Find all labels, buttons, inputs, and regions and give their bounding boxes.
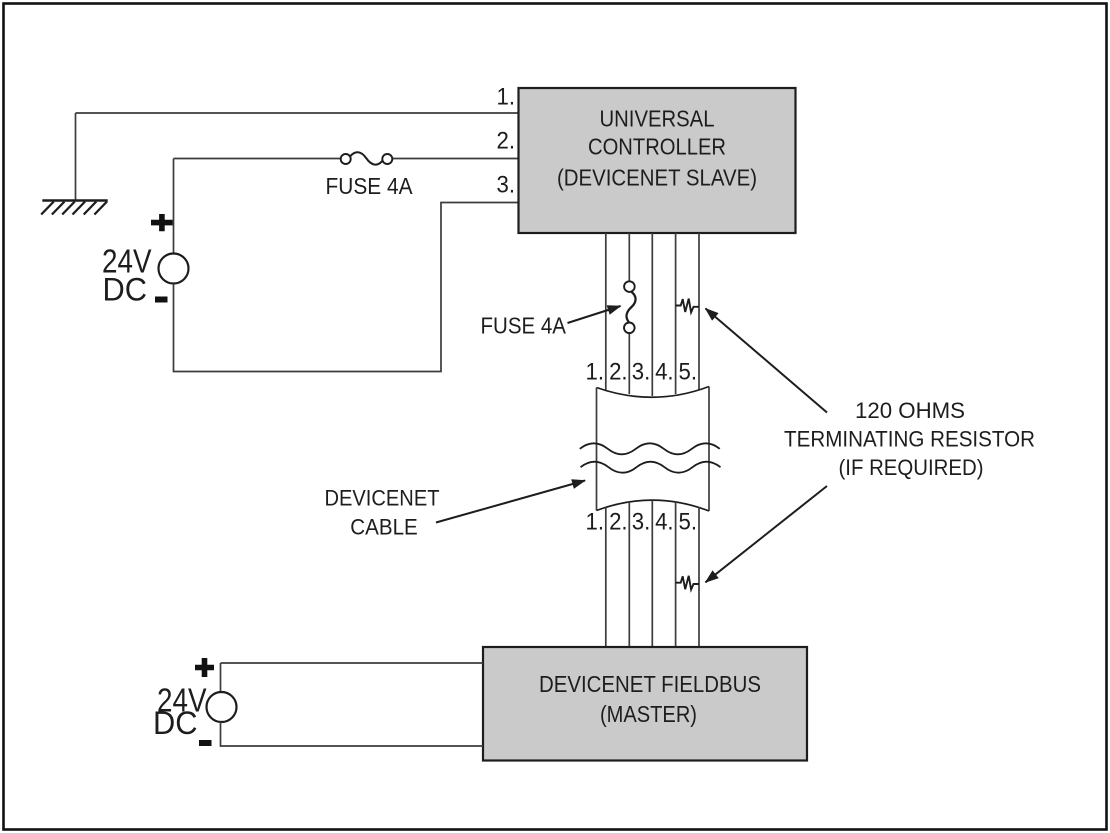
resistor R2 (120 ohms terminating, lower) xyxy=(676,576,699,590)
wire BT1 minus terminal to controller pin 3 xyxy=(174,203,519,372)
svg-text:CONTROLLER: CONTROLLER xyxy=(588,134,726,160)
cable sheath bottom arc xyxy=(597,500,710,511)
bus wire 4 (lower) xyxy=(675,502,677,647)
svg-text:3.: 3. xyxy=(632,509,651,536)
svg-text:2.: 2. xyxy=(609,359,628,386)
svg-text:FUSE 4A: FUSE 4A xyxy=(326,173,414,199)
plus sign (BT1) xyxy=(151,214,173,231)
wire BT2 plus terminal to fieldbus xyxy=(221,663,484,692)
svg-text:120 OHMS: 120 OHMS xyxy=(855,398,965,423)
ground xyxy=(41,201,108,215)
svg-text:1.: 1. xyxy=(586,509,605,536)
svg-text:(IF REQUIRED): (IF REQUIRED) xyxy=(839,455,984,480)
fuse F1 (FUSE 4A, horizontal) xyxy=(341,152,393,164)
svg-text:1.: 1. xyxy=(497,84,516,111)
svg-text:DC: DC xyxy=(103,272,148,308)
resistor R1 (120 ohms terminating, upper) xyxy=(676,299,699,313)
plus sign (BT2) xyxy=(195,658,214,677)
svg-text:DEVICENET: DEVICENET xyxy=(325,486,440,511)
fieldbus box U2 xyxy=(483,647,807,761)
wire V+ through fuse F1 to controller pin 2 xyxy=(174,158,519,160)
svg-text:FUSE 4A: FUSE 4A xyxy=(481,313,567,339)
bus wire 1 (lower) xyxy=(605,507,607,647)
svg-text:UNIVERSAL: UNIVERSAL xyxy=(600,106,715,132)
minus sign (BT1) xyxy=(155,297,168,303)
svg-text:1.: 1. xyxy=(586,359,605,386)
bus wire 3 (lower) xyxy=(651,501,653,648)
bus wire 2 (lower) xyxy=(628,502,630,647)
arrow to resistor R2 xyxy=(706,486,828,582)
svg-text:(DEVICENET SLAVE): (DEVICENET SLAVE) xyxy=(557,165,757,191)
wire BT2 minus terminal to fieldbus xyxy=(221,722,484,746)
source BT2 (24V DC) xyxy=(207,692,237,722)
source BT1 (24V DC) xyxy=(159,254,189,284)
svg-text:2.: 2. xyxy=(497,128,516,155)
svg-text:CABLE: CABLE xyxy=(350,515,418,540)
cable sheath left edge xyxy=(596,388,598,511)
bus wire 5 (lower) xyxy=(698,507,700,647)
fuse F2 (FUSE 4A, vertical) xyxy=(624,281,636,333)
svg-text:4.: 4. xyxy=(655,359,674,386)
minus sign (BT2) xyxy=(199,740,212,746)
wire ground to controller pin 1 xyxy=(76,113,519,200)
bus wire 3 (upper) xyxy=(651,233,653,396)
svg-text:5.: 5. xyxy=(679,509,698,536)
cable break wave 1 xyxy=(580,443,720,454)
controller box U1 xyxy=(519,88,796,233)
svg-text:TERMINATING RESISTOR: TERMINATING RESISTOR xyxy=(784,427,1035,452)
arrow to cable xyxy=(436,481,585,523)
bus wire 2 (upper, through fuse F2) xyxy=(628,233,630,394)
bus wire 1 (upper) xyxy=(605,233,607,390)
cable break wave 2 xyxy=(581,462,721,473)
svg-text:3.: 3. xyxy=(632,359,651,386)
arrow to fuse F2 xyxy=(568,306,621,323)
svg-text:5.: 5. xyxy=(679,359,698,386)
svg-text:2.: 2. xyxy=(609,509,628,536)
svg-text:3.: 3. xyxy=(497,172,516,199)
bus wire 4 (upper) xyxy=(675,233,677,394)
svg-text:(MASTER): (MASTER) xyxy=(600,701,697,727)
cable sheath top arc xyxy=(597,387,710,398)
cable sheath right edge xyxy=(708,387,710,512)
bus wire 5 (upper) xyxy=(698,233,700,390)
svg-text:DEVICENET FIELDBUS: DEVICENET FIELDBUS xyxy=(539,671,761,697)
wire BT1 plus terminal up to wire 2 xyxy=(173,159,175,254)
svg-text:4.: 4. xyxy=(655,509,674,536)
arrow to resistor R1 xyxy=(706,309,828,413)
svg-text:DC: DC xyxy=(153,705,198,741)
